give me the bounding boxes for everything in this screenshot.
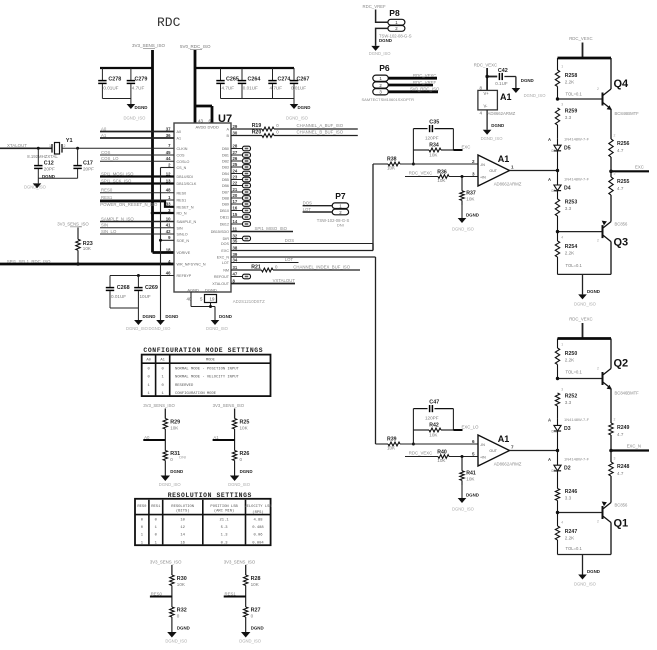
svg-text:10K: 10K: [251, 582, 260, 587]
svg-text:3: 3: [561, 103, 563, 107]
resistor R34: [413, 142, 453, 157]
svg-text:R247: R247: [565, 529, 578, 535]
svg-text:4.7: 4.7: [617, 432, 624, 437]
resistor R250: [555, 339, 582, 379]
svg-text:DGND: DGND: [177, 626, 190, 631]
svg-text:CONFIGURATION MODE SETTINGS: CONFIGURATION MODE SETTINGS: [143, 347, 263, 354]
resistor R259: [555, 103, 577, 139]
svg-text:26: 26: [233, 156, 238, 161]
svg-text:CLKIN: CLKIN: [177, 147, 188, 151]
svg-text:R39: R39: [387, 437, 397, 443]
svg-text:1: 1: [511, 165, 514, 170]
svg-text:R38: R38: [387, 157, 397, 163]
ground DGND for A1 power: [481, 110, 505, 141]
pin 9 SOE_N: [168, 235, 189, 243]
resistor R30: [170, 575, 187, 597]
svg-text:Y1: Y1: [66, 138, 73, 144]
svg-text:OUT: OUT: [489, 169, 497, 173]
svg-text:4.7: 4.7: [617, 471, 624, 476]
svg-text:2: 2: [597, 367, 599, 371]
transistor Q4 NPN: [556, 58, 639, 139]
svg-text:DB1: DB1: [222, 154, 229, 158]
ground DGND for R41: [452, 485, 479, 512]
svg-text:18: 18: [166, 247, 171, 252]
svg-text:48: 48: [166, 188, 171, 193]
svg-text:DVDD: DVDD: [208, 125, 219, 130]
svg-text:NM: NM: [223, 269, 229, 273]
resistor pack DB6: [231, 183, 251, 188]
svg-text:5.3: 5.3: [221, 526, 229, 530]
svg-text:AGND: AGND: [187, 288, 199, 293]
svg-text:RES0: RES0: [177, 191, 187, 195]
svg-text:SINLO: SINLO: [177, 233, 188, 237]
svg-text:DGND_ISO: DGND_ISO: [24, 185, 47, 190]
pin 34 LOT: [222, 257, 238, 265]
svg-text:0: 0: [170, 457, 173, 462]
resistor R248: [609, 451, 630, 503]
pin 28 DB0: [222, 143, 238, 151]
resistor R32: [170, 597, 187, 633]
svg-text:DGND: DGND: [170, 469, 183, 474]
svg-text:DGND_ISO: DGND_ISO: [165, 639, 188, 644]
svg-text:A1: A1: [177, 137, 182, 141]
svg-text:BC856: BC856: [615, 503, 628, 508]
power net 3V3_SENS_ISO for R25: [213, 403, 245, 419]
svg-text:V-: V-: [484, 104, 489, 109]
ground DGND for R31: [159, 469, 183, 487]
op-amp A1 first half: [472, 154, 522, 186]
svg-text:LOT: LOT: [285, 257, 294, 262]
net RES0 node: [150, 592, 172, 597]
svg-text:1: 1: [49, 144, 51, 148]
svg-text:EXC_N: EXC_N: [627, 444, 641, 449]
svg-text:RES0: RES0: [101, 188, 113, 193]
power net 3V3_SENS_ISO at R23: [57, 222, 89, 227]
svg-text:Q3: Q3: [614, 237, 629, 249]
svg-text:3: 3: [614, 172, 616, 176]
svg-text:SAMPLE_N: SAMPLE_N: [177, 220, 197, 224]
pin 3 RD_N: [168, 208, 187, 216]
svg-text:2: 2: [614, 134, 616, 138]
svg-text:1: 1: [561, 343, 563, 347]
svg-text:R253: R253: [565, 200, 578, 206]
svg-text:3.3: 3.3: [565, 400, 572, 405]
pin 40 AGND: [187, 288, 200, 302]
resistor pack DB8: [231, 196, 251, 201]
svg-text:A1: A1: [160, 359, 165, 363]
pin 10 SAMPLE_N: [166, 216, 197, 224]
resistor R255: [609, 171, 630, 221]
wire opamp output: [510, 449, 560, 452]
svg-text:3.3: 3.3: [565, 115, 572, 120]
resistor R27: [244, 597, 261, 633]
table RESOLUTION SETTINGS: [135, 492, 272, 545]
resistor pack DB10: [231, 208, 251, 213]
svg-text:A1: A1: [498, 434, 510, 444]
pin 14 DB12: [220, 219, 238, 227]
svg-text:120PF: 120PF: [425, 135, 439, 140]
pin 45 COS: [166, 150, 185, 158]
resistor R19: [231, 123, 358, 131]
svg-text:2: 2: [597, 87, 599, 91]
svg-text:2: 2: [597, 239, 599, 243]
svg-text:LOT: LOT: [222, 261, 230, 265]
svg-text:0.01UF: 0.01UF: [243, 86, 258, 91]
pin 4 WR_N/FSYNC_N: [168, 259, 206, 267]
svg-text:RES1: RES1: [101, 195, 113, 200]
power net 5V0_RDC_ISO: [180, 44, 211, 50]
resistor pack DB9: [231, 202, 251, 207]
wire AGND DGND join: [191, 292, 215, 320]
pin 7 CLKIN: [168, 143, 188, 151]
pin 22 DB6: [222, 180, 238, 188]
resistor R25: [232, 419, 249, 441]
resistor R252: [555, 388, 577, 419]
svg-text:RDC_VREF: RDC_VREF: [413, 80, 437, 85]
capacitor C264: [238, 68, 261, 99]
svg-text:RDC: RDC: [157, 15, 181, 30]
svg-text:38: 38: [233, 245, 238, 250]
svg-text:RES1: RES1: [151, 505, 161, 509]
svg-text:D2: D2: [564, 466, 571, 472]
svg-text:DGND_ISO: DGND_ISO: [206, 326, 229, 331]
wire 5V0 rail: [195, 50, 212, 123]
svg-text:SIN_LO: SIN_LO: [101, 229, 117, 234]
svg-text:TOL=0.1: TOL=0.1: [566, 546, 583, 551]
svg-text:R250: R250: [565, 351, 578, 357]
svg-text:EXC: EXC: [635, 164, 644, 169]
svg-text:A: A: [548, 457, 551, 462]
capacitor C35: [413, 120, 453, 141]
svg-text:DGND: DGND: [165, 314, 178, 319]
net COS wire: [100, 150, 174, 155]
svg-text:14: 14: [233, 219, 238, 224]
svg-text:POSITION LSB: POSITION LSB: [210, 505, 238, 509]
svg-text:25: 25: [233, 162, 238, 167]
svg-text:3: 3: [614, 457, 616, 461]
svg-text:34: 34: [233, 257, 238, 262]
svg-text:10K: 10K: [429, 433, 438, 438]
svg-text:1: 1: [561, 65, 563, 69]
svg-text:A0: A0: [146, 359, 151, 363]
power net RDC_VEXC for A1: [474, 63, 497, 91]
svg-text:C267: C267: [297, 77, 310, 83]
svg-text:D3: D3: [564, 426, 571, 432]
svg-text:10K: 10K: [466, 477, 475, 482]
svg-text:31: 31: [233, 265, 238, 270]
capacitor C267: [290, 68, 310, 99]
svg-text:R40: R40: [437, 450, 447, 456]
crystal Y1: [27, 138, 72, 159]
net DOS wire to P7: [303, 200, 333, 205]
svg-text:A1: A1: [101, 133, 107, 138]
svg-text:47: 47: [233, 271, 238, 276]
pin 48 RES0: [166, 188, 186, 196]
svg-text:4.7UF: 4.7UF: [222, 86, 235, 91]
net DOS wire: [231, 238, 373, 243]
svg-text:2: 2: [614, 418, 616, 422]
wire feedback: [412, 129, 463, 166]
svg-text:0: 0: [251, 614, 254, 619]
pin 41 SIN: [166, 223, 183, 231]
resistor pack DIR: [231, 236, 251, 241]
pin 1 RES1: [168, 195, 186, 203]
wire top rail: [558, 337, 612, 340]
svg-text:6: 6: [472, 439, 475, 444]
svg-text:DGND: DGND: [521, 78, 534, 83]
net SPI1_SEL1_RDC_ISO: [0, 259, 174, 266]
svg-text:7: 7: [511, 445, 514, 450]
svg-text:3.3: 3.3: [565, 496, 572, 501]
svg-text:DGND_ISO: DGND_ISO: [159, 482, 182, 487]
svg-text:10K: 10K: [240, 426, 249, 431]
svg-text:3V3_SENS_ISO: 3V3_SENS_ISO: [224, 560, 256, 565]
resistor R247: [555, 513, 582, 555]
svg-text:CONFIGURATION MODE: CONFIGURATION MODE: [175, 392, 217, 396]
svg-text:EXC: EXC: [462, 144, 471, 149]
svg-text:U7: U7: [218, 113, 232, 125]
pin 17 DB9: [222, 199, 238, 207]
transistor Q1 PNP: [556, 502, 628, 555]
svg-text:CHANNEL_INDEX_BUF_ISO: CHANNEL_INDEX_BUF_ISO: [293, 265, 350, 270]
ground DGND for Q1 stage: [574, 555, 600, 587]
resistor pack DB0: [231, 146, 251, 151]
svg-text:DGND: DGND: [42, 174, 55, 179]
ground DGND for R32: [165, 626, 189, 644]
pin 13 DB13/SCLK: [166, 178, 197, 186]
net LOT wire to P7: [303, 207, 333, 212]
net COS_LO wire: [100, 156, 174, 161]
svg-text:3: 3: [472, 172, 475, 177]
svg-text:DGND: DGND: [466, 213, 479, 218]
svg-text:R258: R258: [565, 73, 578, 79]
svg-text:22: 22: [233, 180, 238, 185]
net SIN_LO wire: [100, 229, 174, 234]
svg-text:P8: P8: [389, 8, 400, 18]
pin 30 B: [227, 130, 238, 138]
svg-text:C17: C17: [83, 160, 93, 166]
resistor R23: [76, 228, 93, 265]
svg-text:R34: R34: [429, 142, 439, 148]
svg-text:BC846BMTF: BC846BMTF: [615, 391, 640, 396]
svg-text:DGND_ISO: DGND_ISO: [452, 507, 475, 512]
svg-text:RDC_VEXC: RDC_VEXC: [413, 73, 436, 78]
svg-text:2: 2: [472, 159, 475, 164]
svg-text:DOS: DOS: [285, 238, 294, 243]
pin 8 XTALOUT: [212, 278, 235, 286]
wire feedback: [412, 409, 463, 446]
svg-text:A: A: [548, 137, 551, 142]
svg-text:DNI: DNI: [552, 469, 558, 473]
diode D3: [548, 417, 590, 451]
svg-text:DGND: DGND: [251, 626, 264, 631]
resistor R38: [373, 157, 478, 171]
net SPI1_SCK_ISO wire: [100, 178, 174, 183]
ground DGND for R27: [239, 626, 263, 644]
svg-text:DB4: DB4: [222, 172, 229, 176]
svg-text:SIN: SIN: [177, 226, 183, 230]
svg-text:R249: R249: [617, 425, 630, 431]
capacitor C269: [134, 276, 158, 309]
svg-text:EXC_N: EXC_N: [217, 256, 230, 260]
pin 23 DB5: [222, 174, 238, 182]
transistor Q3 PNP: [556, 221, 628, 275]
svg-text:2.2K: 2.2K: [565, 358, 575, 363]
svg-text:DGND_ISO: DGND_ISO: [286, 116, 309, 121]
ground DGND for Q3 stage: [574, 274, 600, 306]
svg-text:C265: C265: [226, 77, 239, 83]
pin 5 19 DGND: [200, 288, 217, 303]
power net RDC_VEXC for Q2: [569, 317, 592, 339]
resistor pack REFOUT: [231, 274, 251, 279]
svg-text:C268: C268: [117, 285, 130, 291]
svg-text:29: 29: [233, 124, 238, 129]
svg-text:RESOLUTION: RESOLUTION: [171, 505, 194, 509]
svg-text:16: 16: [233, 205, 238, 210]
svg-text:AD8662ARMZ: AD8662ARMZ: [494, 461, 522, 466]
svg-text:DB12: DB12: [220, 223, 229, 227]
pin 47 REFOUT: [214, 271, 238, 279]
diode D4: [548, 171, 590, 199]
svg-text:VXTALOUT: VXTALOUT: [273, 278, 296, 283]
pin 32 DIR: [223, 233, 238, 241]
resistor R20: [231, 130, 358, 138]
svg-text:DOS: DOS: [303, 200, 312, 205]
net REFBYP wire: [110, 274, 174, 277]
svg-text:AD2S1210DSTZ: AD2S1210DSTZ: [233, 299, 265, 304]
svg-text:DB9: DB9: [222, 203, 229, 207]
svg-text:4.7UF: 4.7UF: [270, 86, 283, 91]
pin 35 DOS: [221, 238, 238, 246]
ground DGND for C42: [512, 77, 547, 99]
svg-text:POWER_ON_RESET_N_ISO: POWER_ON_RESET_N_ISO: [100, 202, 158, 207]
svg-text:(BITS): (BITS): [176, 509, 190, 514]
net POWER_ON_RESET_N_ISO wire: [100, 201, 174, 207]
svg-text:P6: P6: [379, 63, 390, 73]
svg-text:0.488: 0.488: [252, 526, 264, 530]
svg-text:COS_LO: COS_LO: [101, 156, 119, 161]
svg-text:TOL=0.1: TOL=0.1: [566, 263, 583, 268]
svg-text:DGND_ISO: DGND_ISO: [124, 116, 147, 121]
svg-text:44: 44: [166, 156, 171, 161]
net SIN wire: [100, 223, 174, 228]
pin 31 NM: [223, 265, 238, 273]
svg-text:A1: A1: [498, 154, 510, 164]
svg-text:DGND_ISO: DGND_ISO: [149, 326, 172, 331]
svg-text:-IN: -IN: [480, 443, 485, 447]
svg-text:R42: R42: [429, 422, 439, 428]
svg-text:DGND_ISO: DGND_ISO: [481, 136, 504, 141]
resistor R21: [231, 264, 360, 272]
resistor R254: [555, 232, 582, 275]
svg-text:RES0: RES0: [137, 505, 147, 509]
svg-text:SAMTECTSM10601SXDPTR: SAMTECTSM10601SXDPTR: [362, 97, 415, 102]
svg-text:(RPS): (RPS): [252, 510, 263, 515]
svg-text:TSW-102-08-G-S: TSW-102-08-G-S: [317, 218, 350, 223]
svg-text:19: 19: [210, 297, 215, 302]
resistor R42: [413, 422, 453, 437]
power net 3V3_SENS_ISO: [132, 43, 166, 49]
ground DGND for C278 C279: [102, 99, 147, 121]
svg-text:21.1: 21.1: [220, 519, 230, 523]
svg-text:A1: A1: [500, 92, 512, 102]
svg-text:2: 2: [64, 144, 66, 148]
svg-text:DB2: DB2: [222, 160, 229, 164]
svg-text:MODE: MODE: [206, 359, 216, 363]
svg-text:BC856: BC856: [615, 222, 628, 227]
svg-text:C47: C47: [429, 400, 439, 406]
svg-text:2.2K: 2.2K: [565, 80, 575, 85]
capacitor C279: [127, 68, 148, 99]
svg-text:EXC: EXC: [221, 249, 229, 253]
net XTALOUT input: [0, 143, 52, 148]
svg-text:COS: COS: [101, 150, 110, 155]
svg-text:+IN: +IN: [480, 175, 486, 179]
resistor R37: [460, 175, 476, 205]
net A1 wire: [100, 133, 174, 138]
svg-text:C269: C269: [145, 285, 158, 291]
net SPI1_MISO_ISO wire: [231, 226, 293, 231]
ground DGND for R26: [228, 469, 252, 487]
svg-text:VDRIVE: VDRIVE: [177, 251, 191, 255]
svg-text:0: 0: [177, 614, 180, 619]
svg-text:DNI: DNI: [552, 429, 558, 433]
svg-text:DGND_ISO: DGND_ISO: [452, 227, 475, 232]
svg-text:NORMAL MODE - VELOCITY INPUT: NORMAL MODE - VELOCITY INPUT: [175, 376, 240, 380]
wire 3V3 rail: [153, 50, 175, 253]
pin 44 COSLO: [166, 156, 190, 164]
connector P7: [317, 191, 350, 227]
svg-text:0: 0: [240, 457, 243, 462]
svg-text:-IN: -IN: [480, 163, 485, 167]
svg-text:D4: D4: [564, 186, 571, 192]
svg-text:5V0_RDC_ISO: 5V0_RDC_ISO: [410, 87, 440, 92]
svg-text:43: 43: [198, 118, 203, 123]
svg-text:R21: R21: [251, 264, 261, 270]
svg-text:15: 15: [233, 212, 238, 217]
resistor R36: [405, 170, 478, 184]
net SAMPLE_N_ISO wire: [100, 216, 174, 221]
pin 37 A0: [166, 126, 181, 134]
svg-text:41: 41: [166, 223, 171, 228]
pin 11 DB15/SDO: [211, 226, 238, 234]
svg-text:DB5: DB5: [222, 178, 229, 182]
svg-text:4: 4: [561, 236, 563, 240]
pin 43 AVDD: [196, 118, 207, 129]
svg-text:AVDD: AVDD: [196, 125, 207, 130]
svg-text:DGND: DGND: [135, 105, 148, 110]
op-amp A1 second half: [472, 434, 522, 466]
svg-text:V+: V+: [484, 91, 490, 96]
svg-text:RDC_VEXC: RDC_VEXC: [409, 451, 432, 456]
pin 38 EXC: [221, 245, 237, 253]
net A0 node: [143, 435, 165, 440]
pin 15 DB11: [220, 212, 238, 220]
svg-text:A0: A0: [177, 130, 182, 134]
svg-text:20PF: 20PF: [83, 167, 94, 172]
net RES0 wire: [100, 188, 174, 193]
svg-text:OUT: OUT: [489, 449, 497, 453]
wire cap rail left: [100, 67, 153, 69]
pin 6 DVDD: [208, 118, 219, 129]
svg-text:DB15/SDO: DB15/SDO: [211, 230, 229, 234]
svg-text:10UF: 10UF: [140, 294, 151, 299]
net A1 node: [213, 435, 235, 440]
svg-text:10: 10: [166, 216, 171, 221]
svg-text:3: 3: [561, 388, 563, 392]
svg-text:RD_N: RD_N: [177, 212, 187, 216]
svg-text:Q2: Q2: [614, 358, 629, 370]
